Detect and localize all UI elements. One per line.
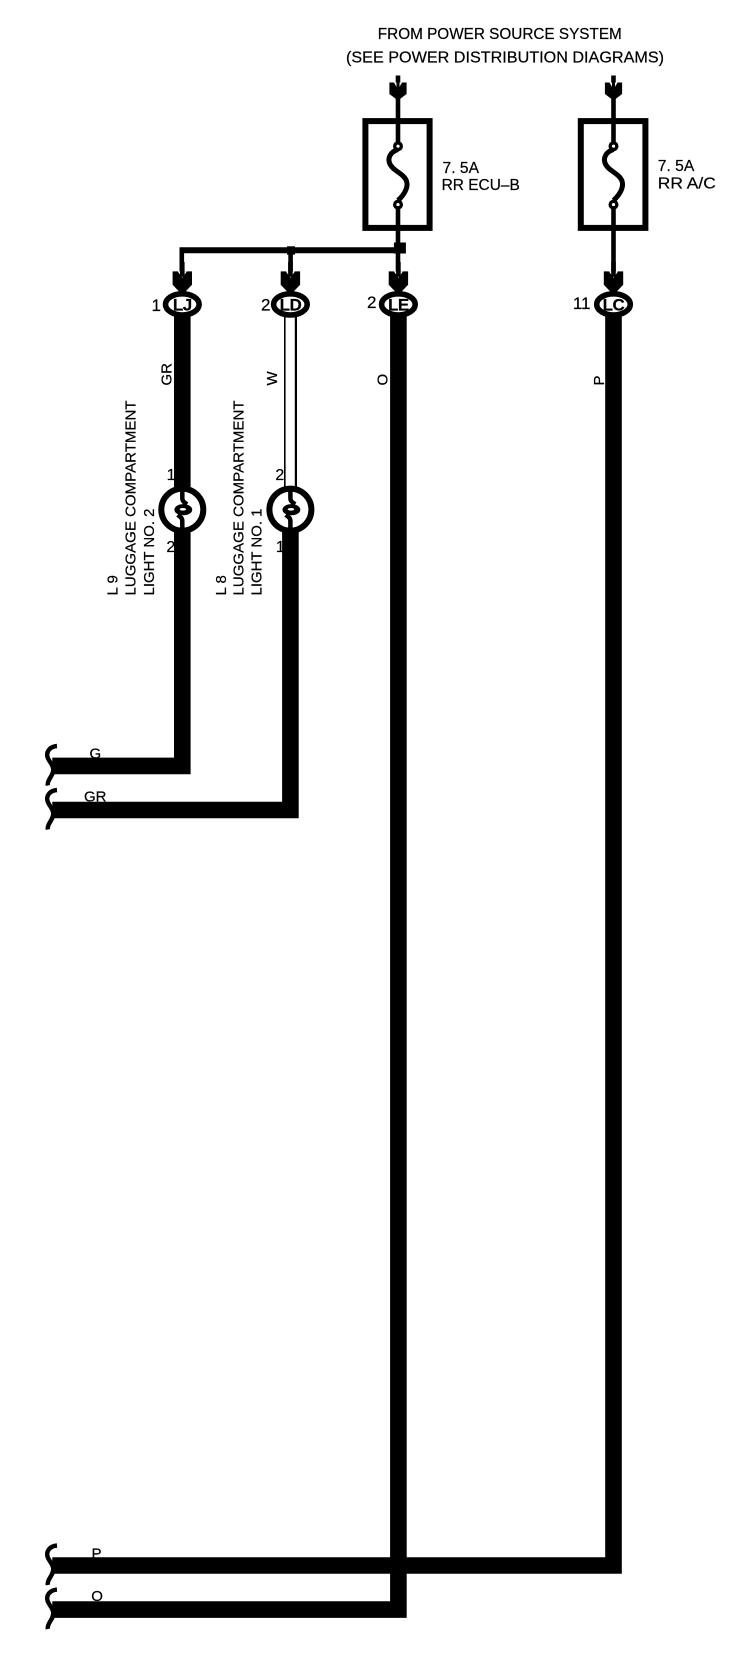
svg-text:L 8: L 8 [213,575,230,595]
power source arrow (left) [389,76,406,101]
svg-text:(SEE POWER DISTRIBUTION DIAGRA: (SEE POWER DISTRIBUTION DIAGRAMS) [346,50,664,67]
svg-text:7. 5A: 7. 5A [658,158,695,175]
svg-text:RR A/C: RR A/C [658,175,716,192]
connector oval LC [597,294,631,315]
svg-text:P: P [591,375,608,385]
connector oval LE [382,294,416,315]
svg-text:LUGGAGE COMPARTMENT: LUGGAGE COMPARTMENT [123,401,140,596]
svg-text:1: 1 [167,467,176,484]
continuation brace G wire [47,746,57,786]
wire: GR from bulb L8 down and left exit [52,530,290,810]
svg-text:GR: GR [159,363,176,386]
svg-text:LE: LE [388,295,409,314]
continuation brace O wire [47,1590,57,1630]
svg-text:GR: GR [84,788,107,805]
wire: fuse F1 bottom lead down to junction and LE arrow [396,206,401,278]
power source arrow (right) [605,76,622,101]
svg-text:LUGGAGE COMPARTMENT: LUGGAGE COMPARTMENT [231,401,248,596]
wire: power feed stem into fuse RR A/C [611,76,616,144]
fuse F1 box 7.5A RR ECU-B [365,121,429,228]
wire: drop to LD arrow [288,250,293,278]
connector oval LJ [166,294,200,315]
connector oval LD [274,294,308,315]
arrow into connector LE [389,262,408,293]
wire: power feed stem into fuse RR ECU-B [396,76,401,144]
svg-text:W: W [264,371,281,386]
svg-text:1: 1 [152,296,161,315]
svg-text:2: 2 [367,293,376,312]
wire: O from LE down and left exit [52,310,398,1610]
svg-text:11: 11 [573,294,591,313]
wire: drop to LJ arrow [180,250,185,278]
wire: branch bus from LJ across LD to LE [180,247,401,253]
arrow into connector LC [604,262,623,293]
svg-text:O: O [375,374,392,386]
svg-text:O: O [91,1588,103,1605]
fuse F2 element [604,141,622,209]
svg-text:LD: LD [280,295,302,314]
bulb L9 luggage compartment light no.2 [161,489,203,531]
svg-text:2: 2 [166,539,175,556]
svg-text:P: P [92,1545,102,1562]
junction node at LE drop [394,243,406,254]
wire: W hollow from LD down to bulb L8 (right line) [295,317,297,490]
svg-text:LIGHT NO. 2: LIGHT NO. 2 [141,509,158,596]
arrow into connector LD [281,262,300,293]
bulb L8 luggage compartment light no.1 [269,489,311,531]
junction node at LD drop [287,246,295,254]
wire: GR from LJ down to bulb L9 [52,310,182,766]
wire: fuse F2 bottom lead down to LC arrow [611,206,616,278]
svg-text:LC: LC [603,295,625,314]
svg-text:2: 2 [261,296,270,315]
fuse F1 element [389,141,407,209]
svg-text:RR ECU–B: RR ECU–B [442,177,520,194]
svg-text:1: 1 [276,539,285,556]
svg-text:LJ: LJ [173,295,192,314]
continuation brace GR wire [47,790,57,830]
fuse F2 box 7.5A RR A/C [581,121,646,228]
continuation brace P wire [47,1546,57,1586]
wire: W hollow from LD down to bulb L8 (left line) [284,317,286,490]
svg-text:7. 5A: 7. 5A [443,160,480,177]
svg-text:2: 2 [275,467,284,484]
arrow into connector LJ [173,262,192,293]
wire: P from LC down and left exit [52,310,613,1566]
svg-text:LIGHT NO. 1: LIGHT NO. 1 [249,509,266,596]
svg-text:L 9: L 9 [105,575,122,595]
svg-text:G: G [90,745,102,762]
svg-text:FROM POWER SOURCE SYSTEM: FROM POWER SOURCE SYSTEM [378,26,622,43]
